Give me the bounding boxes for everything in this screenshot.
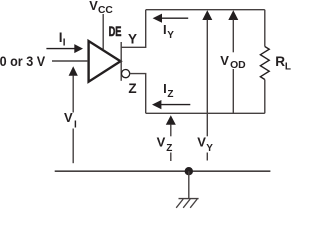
current arrow IZ [152, 100, 190, 109]
voltage arrow VI [69, 66, 78, 163]
current arrow II [46, 44, 83, 53]
svg-text:V: V [197, 135, 206, 150]
current IZ label [163, 81, 173, 100]
wire top rail Y net [146, 9, 265, 11]
voltage VI label [64, 110, 77, 130]
svg-text:R: R [275, 54, 285, 69]
wire VCC lead [102, 14, 104, 49]
svg-text:Y: Y [128, 32, 137, 47]
svg-text:I: I [163, 22, 167, 37]
voltage VZ label [157, 135, 173, 155]
svg-text:V: V [157, 135, 166, 150]
ground [176, 199, 198, 208]
svg-text:I: I [163, 81, 167, 96]
svg-text:V: V [64, 110, 73, 125]
op-amp driver U1 [89, 41, 121, 82]
voltage VOD label [220, 53, 246, 71]
resistor RL label [275, 54, 291, 72]
power VCC label [89, 0, 113, 16]
voltage arrow VOD [228, 10, 238, 113]
voltage arrow VY [202, 10, 212, 160]
svg-text:0 or 3 V: 0 or 3 V [0, 54, 45, 69]
svg-text:OD: OD [230, 60, 246, 71]
current arrow IY [153, 14, 189, 23]
voltage arrow VZ [166, 115, 176, 161]
voltage VY label [197, 135, 213, 155]
resistor RL [260, 10, 269, 114]
svg-text:I: I [63, 37, 66, 48]
inverter bubble [122, 70, 130, 78]
wire output bar DE [120, 42, 122, 81]
svg-text:CC: CC [98, 5, 113, 16]
svg-text:V: V [220, 53, 229, 68]
node junction dot [185, 167, 193, 175]
wire input [52, 60, 88, 62]
wire ground stem [188, 171, 190, 198]
svg-text:Y: Y [206, 143, 213, 154]
svg-text:Y: Y [167, 30, 174, 41]
svg-text:Z: Z [167, 89, 173, 100]
svg-text:I: I [74, 119, 77, 130]
svg-text:Z: Z [166, 143, 172, 154]
svg-text:V: V [89, 0, 98, 13]
wire Z output [130, 74, 146, 114]
svg-text:Z: Z [128, 81, 136, 96]
current IY label [163, 22, 174, 41]
wire ground bus [55, 170, 271, 172]
wire bottom rail Z net [146, 112, 265, 114]
current II label [59, 30, 66, 48]
svg-text:L: L [285, 61, 291, 72]
wire Y output [121, 10, 146, 48]
svg-text:DE: DE [109, 24, 122, 39]
